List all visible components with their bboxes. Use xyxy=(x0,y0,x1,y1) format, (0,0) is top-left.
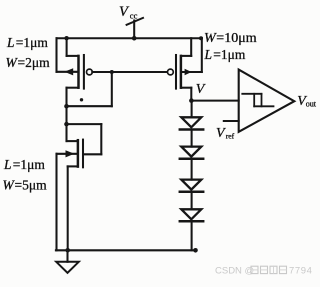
label Vcc xyxy=(119,4,138,20)
label L=1um (M3) xyxy=(3,157,45,172)
label W=10um (M2) xyxy=(204,31,257,46)
wire diode chain top xyxy=(191,101,193,118)
pmos M2 drain wire xyxy=(182,88,192,101)
svg-text:cc: cc xyxy=(130,10,138,20)
diode D1 xyxy=(180,117,203,129)
svg-text:ref: ref xyxy=(226,131,235,140)
pmos M1 bulk arrow xyxy=(64,68,73,75)
svg-text:=10μm: =10μm xyxy=(216,31,256,46)
svg-text:=5μm: =5μm xyxy=(15,177,48,192)
nmos M3 source wire xyxy=(68,166,77,250)
svg-text:V: V xyxy=(196,82,206,97)
label W=5um (M3) xyxy=(3,177,48,192)
node M3 gate loop dot xyxy=(64,122,69,127)
svg-text:7794: 7794 xyxy=(289,266,313,277)
svg-text:=1μm: =1μm xyxy=(213,47,246,62)
pmos M1 bulk wire xyxy=(57,38,78,72)
pmos M1 gate bar xyxy=(83,55,85,89)
pmos M2 channel bar xyxy=(180,56,183,88)
node diode chain ground dot xyxy=(193,248,198,253)
label L=1um (M1) xyxy=(6,35,48,50)
nmos M3 channel bar xyxy=(77,140,80,166)
label Vref xyxy=(216,126,235,141)
nmos M3 bulk arrow xyxy=(66,150,75,157)
wire gate net between M1 and M2 xyxy=(92,71,167,73)
nmos M3 bulk wire xyxy=(57,154,78,251)
wire D1-D2 xyxy=(191,130,193,147)
diode D3 xyxy=(180,180,203,192)
nmos M3 drain wire xyxy=(67,140,78,142)
wire D2-D3 xyxy=(191,159,193,180)
wire top Vcc rail xyxy=(57,37,202,39)
pmos M2 bulk arrow xyxy=(185,69,192,75)
node Vcc junction dot xyxy=(132,36,137,41)
svg-text:L: L xyxy=(204,47,213,62)
svg-text:=1μm: =1μm xyxy=(16,35,49,50)
watermark xyxy=(215,266,313,277)
ground symbol xyxy=(56,250,79,273)
label W=2um (M1) xyxy=(6,55,51,70)
wire D4 to ground rail xyxy=(191,221,193,250)
diode D2 xyxy=(180,147,203,159)
label Vout xyxy=(297,94,317,109)
stray dot xyxy=(80,98,83,101)
node source ground dot xyxy=(65,248,70,253)
svg-text:V: V xyxy=(216,126,226,141)
wire M3 gate loop xyxy=(67,124,102,154)
op-amp comparator U1 xyxy=(239,70,295,132)
node M2 bulk rail dot xyxy=(199,36,203,40)
pmos M2 bulk wire xyxy=(182,38,202,72)
diode D4 xyxy=(180,209,203,221)
wire Vcc lead xyxy=(133,21,135,39)
wire D3-D4 xyxy=(191,192,193,210)
hysteresis symbol xyxy=(242,94,273,107)
svg-text:L: L xyxy=(6,35,15,50)
pmos M1 channel bar xyxy=(77,56,80,88)
svg-text:W: W xyxy=(204,31,217,46)
label L=1um (M2) xyxy=(204,47,246,62)
wire gate to drain tie xyxy=(67,72,112,106)
wire ground rail xyxy=(56,249,196,251)
Vcc supply tick xyxy=(127,18,143,25)
svg-text:L: L xyxy=(3,157,12,172)
nmos M3 gate bar xyxy=(82,140,84,168)
svg-text:CSDN @: CSDN @ xyxy=(215,266,254,277)
wire V node to comparator xyxy=(191,100,238,102)
pmos M1 source wire xyxy=(67,38,78,56)
pmos M2 gate bubble xyxy=(168,69,174,75)
node V dot xyxy=(189,98,194,103)
node drain tie dot xyxy=(64,104,69,109)
svg-text:=2μm: =2μm xyxy=(18,55,51,70)
pmos M1 gate bubble xyxy=(87,69,93,75)
svg-text:=1μm: =1μm xyxy=(13,157,46,172)
wire Vref input lead xyxy=(224,120,239,122)
node gate tie dot xyxy=(110,70,114,74)
pmos M2 gate bar xyxy=(175,55,177,89)
label V node xyxy=(196,82,206,97)
pmos M1 drain wire xyxy=(67,88,78,141)
pmos M2 source wire xyxy=(182,38,191,56)
node M1 source rail dot xyxy=(64,36,68,40)
svg-text:out: out xyxy=(306,99,317,108)
svg-text:V: V xyxy=(119,4,130,20)
